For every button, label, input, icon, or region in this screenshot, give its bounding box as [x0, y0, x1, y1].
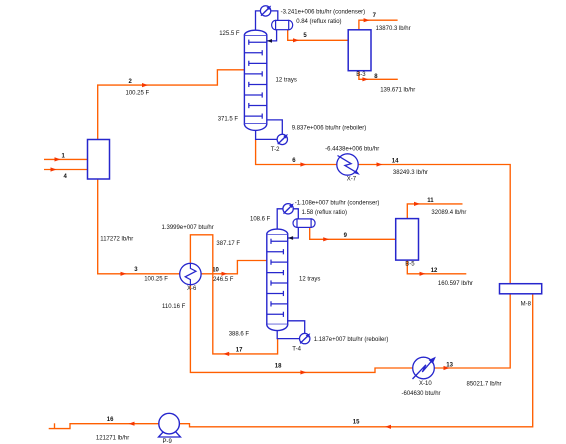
svg-text:125.5 F: 125.5 F [219, 31, 240, 37]
condenser T-4 [283, 201, 379, 216]
svg-text:13: 13 [446, 362, 453, 368]
stream 12 [407, 260, 473, 287]
svg-text:117272 lb/hr: 117272 lb/hr [100, 237, 133, 243]
pump P-9 [159, 413, 181, 444]
stream 1 [44, 153, 88, 161]
reboiler T-4 [292, 333, 388, 352]
svg-text:M-8: M-8 [521, 302, 532, 308]
svg-text:121271 lb/hr: 121271 lb/hr [96, 436, 129, 442]
condenser T-2 [260, 6, 365, 17]
reboiler T-4 piping [277, 321, 305, 339]
stream 8 [359, 71, 415, 94]
svg-text:110.16 F: 110.16 F [162, 304, 186, 310]
reflux return T-2 [267, 30, 277, 43]
svg-text:T-4: T-4 [292, 346, 301, 352]
svg-text:16: 16 [107, 417, 114, 423]
stream 14 [358, 158, 510, 283]
svg-text:371.5 F: 371.5 F [218, 116, 239, 122]
exchanger X-7 [325, 147, 379, 183]
svg-text:1.3999e+007 btu/hr: 1.3999e+007 btu/hr [162, 225, 214, 231]
svg-text:387.17 F: 387.17 F [216, 241, 240, 247]
svg-text:108.6 F: 108.6 F [250, 216, 271, 222]
svg-text:14: 14 [392, 158, 399, 164]
svg-text:0.84 (reflux ratio): 0.84 (reflux ratio) [296, 19, 341, 25]
svg-text:15: 15 [353, 420, 360, 426]
svg-text:P-9: P-9 [163, 439, 173, 444]
condenser T-2 piping [256, 11, 278, 30]
svg-text:T-2: T-2 [271, 147, 280, 153]
svg-text:32089.4 lb/hr: 32089.4 lb/hr [431, 210, 466, 216]
svg-text:X-7: X-7 [347, 176, 357, 182]
svg-text:B-5: B-5 [405, 261, 415, 267]
svg-text:1.187e+007 btu/hr (reboiler): 1.187e+007 btu/hr (reboiler) [314, 337, 389, 343]
svg-text:160.597 lb/hr: 160.597 lb/hr [438, 281, 473, 287]
svg-text:139.671 lb/hr: 139.671 lb/hr [380, 88, 415, 94]
stream 9 [310, 227, 396, 241]
stream 2 [98, 70, 245, 140]
stream 17 / hot loop to X-6 [162, 225, 278, 356]
svg-text:-6.4438e+006 btu/hr: -6.4438e+006 btu/hr [325, 147, 379, 153]
svg-text:-1.108e+007 btu/hr (condenser): -1.108e+007 btu/hr (condenser) [295, 201, 380, 207]
stream 15 [179, 294, 532, 429]
reboiler T-2 piping [256, 120, 283, 139]
svg-text:-604630 btu/hr: -604630 btu/hr [402, 391, 441, 397]
stream 5 [288, 30, 349, 43]
mixer M-8 [500, 284, 542, 308]
stream 10 [201, 261, 267, 284]
flash B-3 [348, 30, 371, 78]
reboiler T-2 [271, 126, 366, 154]
svg-text:13870.3 lb/hr: 13870.3 lb/hr [376, 26, 411, 32]
reflux drum T-4 [293, 219, 315, 228]
svg-text:11: 11 [427, 198, 434, 204]
cooler X-10 [402, 357, 441, 397]
svg-text:100.25 F: 100.25 F [144, 277, 168, 283]
column T-4 [250, 216, 320, 330]
exchanger X-6 [180, 263, 201, 292]
flash B-5 [396, 219, 419, 268]
svg-text:18: 18 [275, 363, 282, 369]
svg-text:12 trays: 12 trays [276, 77, 297, 83]
svg-text:-3.241e+006 btu/hr (condenser): -3.241e+006 btu/hr (condenser) [281, 9, 366, 15]
svg-text:388.6 F: 388.6 F [229, 332, 250, 338]
svg-text:17: 17 [236, 347, 243, 353]
stream 6 [256, 139, 337, 166]
stream 11 [407, 198, 466, 218]
svg-text:X-10: X-10 [419, 381, 432, 387]
reflux return T-4 [288, 227, 299, 240]
svg-text:100.25 F: 100.25 F [126, 90, 150, 96]
svg-text:38249.3 lb/hr: 38249.3 lb/hr [393, 170, 428, 176]
svg-text:9.837e+006 btu/hr (reboiler): 9.837e+006 btu/hr (reboiler) [292, 126, 367, 132]
stream 3 [98, 179, 180, 283]
reflux drum T-2 [272, 19, 342, 30]
svg-text:85021.7 lb/hr: 85021.7 lb/hr [467, 381, 502, 387]
svg-text:246.5 F: 246.5 F [213, 277, 234, 283]
column T-2 [218, 30, 297, 130]
stream 13 [434, 294, 510, 388]
svg-text:12: 12 [431, 268, 438, 274]
condenser T-4 piping [277, 209, 298, 230]
svg-text:X-6: X-6 [187, 286, 197, 292]
svg-text:12 trays: 12 trays [299, 276, 320, 282]
stream 18 [162, 285, 413, 375]
svg-text:1.58 (reflux ratio): 1.58 (reflux ratio) [302, 210, 347, 216]
stream 4 [44, 167, 88, 180]
svg-text:B-3: B-3 [356, 72, 366, 78]
feed mixer vessel [88, 140, 110, 180]
stream 7 [359, 13, 411, 32]
stream 16 [49, 417, 159, 442]
